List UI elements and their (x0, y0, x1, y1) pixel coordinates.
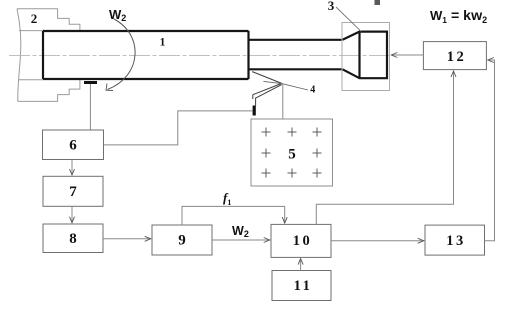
label equation W1=kW2 (430, 8, 487, 25)
label 10 (293, 233, 313, 249)
svg-text:5: 5 (288, 147, 296, 163)
wire f1 from 9 to 10 (182, 206, 285, 225)
wire 7 to 8 (71, 206, 73, 222)
svg-text:12: 12 (447, 49, 467, 65)
wire 10 to 13 (331, 240, 424, 242)
block 7 (43, 176, 103, 206)
svg-text:1: 1 (160, 37, 166, 49)
block 8 (43, 224, 103, 253)
label 1 (160, 37, 166, 49)
chuck 2 (17, 9, 80, 102)
block 13 (425, 225, 485, 255)
svg-text:7: 7 (69, 184, 77, 200)
svg-text:W2: W2 (109, 7, 126, 23)
sensor under workpiece (84, 81, 97, 84)
rotation arrow W2 (106, 19, 135, 91)
wire tool to block 5 (282, 84, 284, 119)
leader line to 4 (263, 81, 308, 90)
label 2 (31, 11, 38, 26)
wire 12 to tailstock (391, 54, 423, 56)
tailstock cone 3 (343, 32, 388, 79)
label 6 (69, 138, 77, 154)
svg-text:10: 10 (293, 233, 313, 249)
label 3 (328, 0, 335, 13)
block 9 (152, 225, 212, 255)
svg-text:13: 13 (446, 233, 466, 249)
label W2 rotation (109, 7, 126, 23)
label f1 (223, 190, 231, 207)
svg-text:W2: W2 (232, 224, 249, 239)
svg-text:3: 3 (328, 0, 335, 13)
label 13 (446, 233, 466, 249)
wire 11 to 10 (300, 259, 302, 271)
label 4 (310, 85, 315, 96)
workpiece 1 (43, 31, 343, 79)
label 5 (288, 147, 296, 163)
svg-text:f1: f1 (223, 190, 231, 207)
block 10 (271, 224, 331, 257)
tool post block (253, 106, 256, 116)
tailstock housing (342, 23, 390, 91)
wire 6 to 7 (71, 160, 73, 176)
svg-text:W1 = kw2: W1 = kw2 (430, 8, 487, 25)
block 12 (423, 42, 486, 70)
tool 4 (252, 72, 282, 106)
label 8 (69, 231, 77, 247)
svg-text:6: 6 (69, 138, 77, 154)
wire 9 to 10 W2 (212, 239, 270, 241)
node mark top (375, 0, 381, 5)
svg-text:2: 2 (31, 11, 38, 26)
wire block 6 to tool post (104, 111, 253, 145)
block 6 (43, 130, 104, 160)
centerline (9, 55, 390, 57)
label 9 (178, 233, 186, 249)
label 7 (69, 184, 77, 200)
wire 10 to 12 (316, 71, 453, 224)
wire 8 to 9 (103, 238, 151, 240)
leader line to 3 (336, 7, 361, 31)
wire 13 to 12 (485, 60, 495, 241)
cross marks in block 5 (262, 128, 322, 178)
svg-text:4: 4 (310, 85, 315, 96)
svg-text:11: 11 (294, 278, 313, 294)
label 11 (294, 278, 313, 294)
label W2 wire (232, 224, 249, 239)
svg-text:9: 9 (178, 233, 186, 249)
label 12 (447, 49, 467, 65)
svg-text:8: 8 (69, 231, 77, 247)
block 5 (251, 119, 333, 186)
block 11 (272, 271, 331, 301)
wire sensor to block 6 (89, 84, 91, 130)
